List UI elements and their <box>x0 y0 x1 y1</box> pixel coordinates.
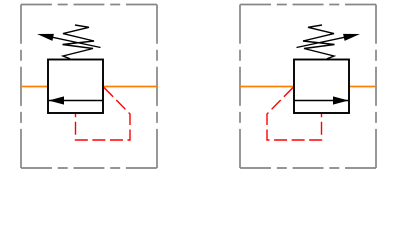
adjustment arrowhead V1 <box>37 34 54 41</box>
enclosure boundary left edge (gray dashed) V1 <box>20 5 22 169</box>
spring V2 <box>303 25 335 59</box>
flow path arrow shaft V2 <box>294 100 348 102</box>
flow line P (orange), right segment V2 <box>348 86 376 88</box>
valve body square V2 <box>294 60 349 114</box>
pilot/drain line (red dashed) V2 <box>267 88 322 141</box>
flow line P (orange), left segment V1 <box>21 86 49 88</box>
enclosure boundary bottom edge (gray dashed) V2 <box>240 167 376 169</box>
valve body square V1 <box>48 60 103 114</box>
flow line A (orange), left segment V2 <box>240 86 295 88</box>
left pressure valve symbol V1 <box>21 5 157 169</box>
flow path arrowhead V2 <box>333 96 349 104</box>
spring V1 <box>63 25 95 59</box>
right pressure valve symbol V2 (mirrored) <box>240 5 376 169</box>
flow path arrowhead V1 <box>49 96 65 104</box>
enclosure boundary top edge (gray dashed) V1 <box>21 4 157 6</box>
pilot/drain line (red dashed) V1 <box>76 88 131 141</box>
enclosure boundary top edge (gray dashed) V2 <box>240 4 376 6</box>
enclosure boundary right edge (gray dashed) V1 <box>156 5 158 169</box>
enclosure boundary bottom edge (gray dashed) V1 <box>21 167 157 169</box>
enclosure boundary left edge (gray dashed) V2 <box>375 5 377 169</box>
flow line A (orange), right segment V1 <box>102 86 157 88</box>
adjustment arrow shaft V2 <box>297 36 353 48</box>
adjustment arrow shaft V1 <box>45 36 101 48</box>
adjustment arrowhead V2 <box>343 34 360 41</box>
enclosure boundary right edge (gray dashed) V2 <box>239 5 241 169</box>
flow path arrow shaft V1 <box>49 100 103 102</box>
